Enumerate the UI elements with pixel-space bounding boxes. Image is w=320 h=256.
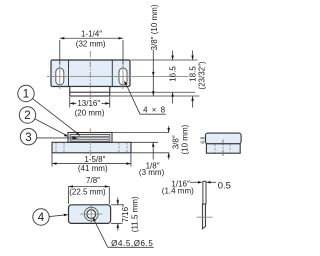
svg-text:(11.5 mm): (11.5 mm) [131,196,140,232]
dimension 18.5 (23/32) [189,51,207,108]
svg-text:(10 mm): (10 mm) [181,124,190,154]
svg-text:(1.4 mm): (1.4 mm) [162,187,194,196]
strike plate hole outer [84,207,98,221]
svg-text:6.8: 6.8 [201,137,207,144]
strike side view: upper strip [203,181,206,204]
dimension 3/8 (10 mm) side view [167,124,189,159]
leader from balloon 1 [32,98,80,135]
end view body bottom [206,144,240,153]
dimension 16.5 [168,51,177,104]
leader from balloon 4 [49,214,68,217]
svg-text:4 × 8: 4 × 8 [143,105,166,114]
svg-text:16.5: 16.5 [168,66,177,82]
svg-text:3: 3 [25,132,31,144]
svg-text:(41 mm): (41 mm) [78,164,108,173]
svg-text:1: 1 [23,89,29,101]
dimension 1-1/4 (32 mm) [60,29,123,64]
svg-text:3/8″ (10 mm): 3/8″ (10 mm) [150,4,159,50]
dimension 1/16 (1.4 mm) / 0.5 [162,179,231,195]
side view: latch block [68,133,112,143]
strike side view: lower strip [202,204,205,229]
svg-text:4: 4 [38,212,45,224]
slot hole right 4x8 [119,68,127,85]
slot hole left 4x8 [56,68,64,85]
hidden lines slots in side view [56,143,127,153]
side view reference lines right [113,132,170,134]
balloon 3 [20,129,36,145]
vertical centerline top view [89,51,91,100]
svg-text:(32 mm): (32 mm) [76,39,106,48]
label 4 x 8 with leader [124,81,166,114]
slot centerline vertical right [122,64,124,90]
side view: rubber insert with stripes [70,134,110,141]
svg-text:0.5: 0.5 [218,180,231,191]
end view body top [206,133,242,144]
svg-text:18.5: 18.5 [189,66,198,82]
svg-text:(23/32″): (23/32″) [197,61,206,90]
svg-text:13/16″: 13/16″ [77,99,100,108]
leader from balloon 3 [37,136,79,139]
svg-text:7/16″: 7/16″ [121,204,130,223]
end view centerline [222,140,224,157]
strike plate [69,205,111,224]
svg-text:(3 mm): (3 mm) [139,168,165,177]
dimension 13/16 (20 mm) [70,97,110,117]
svg-text:Ø4.5,Ø6.5: Ø4.5,Ø6.5 [111,239,153,248]
reference line tongue step extended right [70,91,195,93]
balloon 4 [33,209,49,225]
strike side crosshair [197,216,213,218]
svg-text:(22.5 mm): (22.5 mm) [69,188,106,197]
hole diameter leader and label [93,217,154,248]
side view: base plate [52,142,131,153]
svg-text:1-1/4″: 1-1/4″ [81,29,102,38]
svg-text:2: 2 [24,110,30,122]
dimension 7/16 (11.5 mm) [111,196,140,232]
dimension 1/8 (3 mm) [139,142,165,177]
top view: tongue (catch body protrusion) [70,87,110,97]
dimension 1-5/8 (41 mm) [52,154,131,173]
balloon 2 [19,107,35,123]
top view: mounting plate [51,60,130,87]
slot centerline vertical left [59,64,61,90]
strike plate hole crosshair [80,206,102,223]
side view vertical centerline [89,129,91,157]
leader from balloon 2 [35,119,68,137]
dimension 3/8 (10 mm) vertical top [150,4,159,96]
balloon 1 [18,85,34,101]
svg-text:7/8″: 7/8″ [86,176,100,185]
end view hidden lines [215,145,230,153]
strike plate hole inner [87,210,96,219]
reference line plate top extended right [131,59,198,61]
svg-text:(20 mm): (20 mm) [75,108,105,117]
reference line tongue bottom extended right [110,95,200,97]
svg-text:3/8″: 3/8″ [172,135,181,149]
horizontal centerline through slots [47,75,189,77]
dimension 7/8 (22.5 mm) [69,176,110,204]
